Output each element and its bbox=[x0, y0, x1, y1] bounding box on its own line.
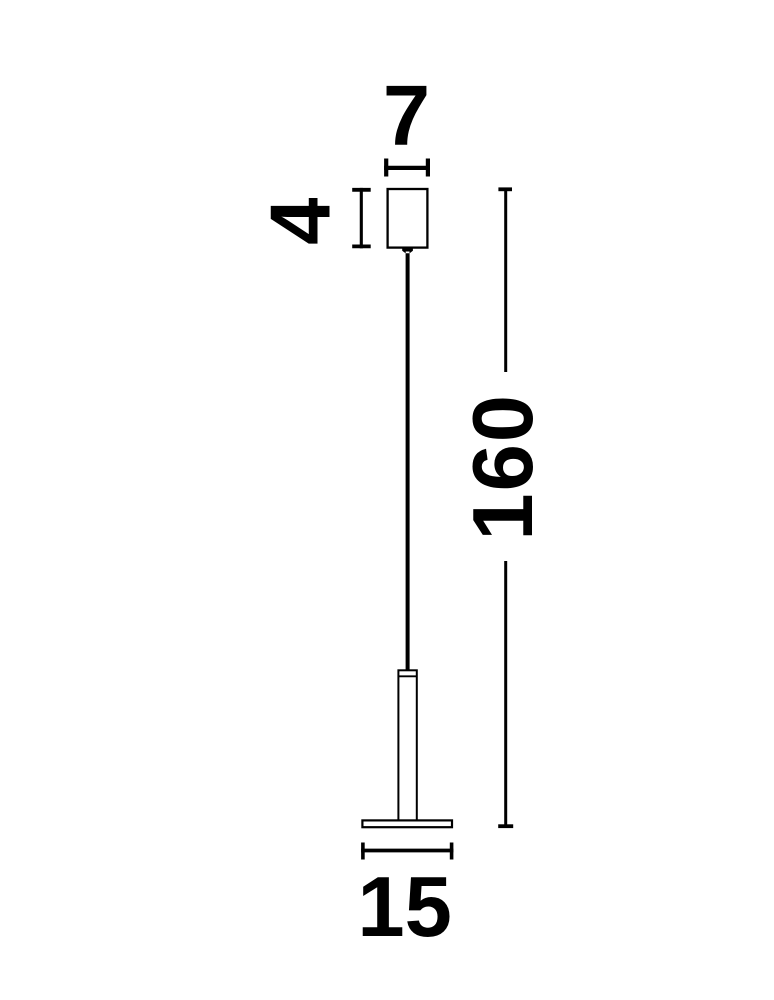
canopy height dimension line bbox=[352, 188, 371, 248]
tube top cap line bbox=[398, 675, 417, 677]
svg-text:160: 160 bbox=[456, 393, 551, 541]
svg-text:15: 15 bbox=[357, 860, 452, 955]
lamp tube bbox=[398, 670, 416, 820]
overall height dimension line: top tick bbox=[498, 187, 512, 191]
overall height dimension line: lower segment bbox=[504, 561, 507, 826]
top width dimension line bbox=[384, 159, 430, 177]
ceiling canopy box bbox=[388, 189, 428, 248]
base width dimension line bbox=[361, 843, 453, 860]
suspension wire bbox=[406, 253, 410, 670]
overall height dimension line: bottom tick bbox=[498, 824, 513, 828]
svg-text:4: 4 bbox=[254, 198, 349, 245]
base plate bbox=[362, 820, 452, 827]
overall height dimension line: upper segment bbox=[504, 189, 507, 372]
cord grip bbox=[402, 248, 413, 253]
svg-text:7: 7 bbox=[383, 69, 430, 164]
